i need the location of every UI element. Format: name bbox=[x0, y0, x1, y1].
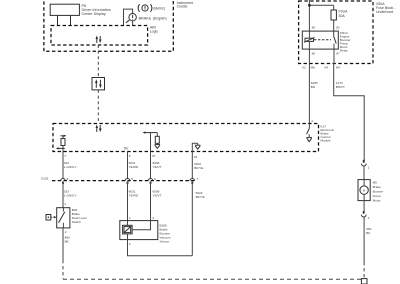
serial data wire (dashed) lower bbox=[97, 90, 99, 124]
svg-text:YE/RD: YE/RD bbox=[129, 165, 139, 169]
battery feed wire bbox=[309, 0, 333, 31]
svg-text:Logic: Logic bbox=[150, 30, 159, 34]
brake warning lamp wire bbox=[124, 9, 133, 25]
svg-text:1: 1 bbox=[129, 216, 131, 220]
display P8 bbox=[50, 4, 111, 25]
ground terminal square bbox=[361, 279, 367, 284]
svg-text:85: 85 bbox=[312, 26, 316, 30]
brake warning lamp (english) bbox=[126, 14, 167, 23]
svg-text:7: 7 bbox=[64, 154, 66, 158]
svg-text:M5: M5 bbox=[373, 181, 378, 185]
float symbol bbox=[46, 215, 57, 221]
ECM pin numbers bbox=[64, 154, 197, 159]
relay contact linkage (dashed) bbox=[314, 39, 331, 41]
wire 6022 BK/YE upper bbox=[192, 152, 203, 179]
ECM internal: pin 2 switch to ground bbox=[306, 119, 313, 142]
brake fluid level switch B20 bbox=[57, 202, 87, 228]
svg-text:8: 8 bbox=[67, 177, 69, 181]
junction dot bbox=[308, 4, 311, 7]
svg-text:L-GN/GY: L-GN/GY bbox=[64, 165, 77, 169]
ECM internal: pin 32 ground bbox=[192, 143, 200, 151]
svg-text:1: 1 bbox=[64, 202, 66, 206]
wire 550 BK bbox=[364, 217, 372, 279]
svg-text:2: 2 bbox=[368, 216, 370, 220]
serial data arrows in A60 bbox=[96, 36, 102, 44]
gateway connector box with arrows bbox=[92, 78, 105, 90]
svg-text:8: 8 bbox=[129, 154, 131, 158]
svg-text:L-GN/GY: L-GN/GY bbox=[64, 193, 77, 197]
brake booster pump motor M5 bbox=[358, 180, 383, 203]
relay KR14 bbox=[302, 26, 350, 56]
svg-text:BK/YE: BK/YE bbox=[196, 195, 205, 199]
svg-text:BN: BN bbox=[311, 85, 315, 89]
svg-text:30: 30 bbox=[336, 26, 340, 30]
svg-text:(English): (English) bbox=[153, 16, 167, 20]
wire 333 L-GN/GY lower bbox=[63, 182, 77, 208]
wire 6031 YE/RD lower bbox=[128, 182, 139, 226]
svg-text:(Metric): (Metric) bbox=[153, 6, 165, 10]
inline connector 2 (motor ground) bbox=[361, 201, 369, 220]
wire 6008 YE/VT upper bbox=[151, 152, 162, 179]
svg-text:Brake: Brake bbox=[373, 185, 381, 189]
svg-text:BRAKE: BRAKE bbox=[139, 17, 152, 21]
svg-text:37: 37 bbox=[152, 154, 156, 158]
fuse F9UA 30A bbox=[331, 5, 348, 31]
relay coil bbox=[304, 31, 315, 49]
svg-text:X4: X4 bbox=[324, 65, 328, 69]
svg-text:Pump: Pump bbox=[373, 194, 381, 198]
svg-text:2: 2 bbox=[65, 230, 67, 234]
wire 6031 YE/RD upper bbox=[128, 152, 139, 179]
ground bus (dashed) bbox=[63, 278, 361, 280]
svg-text:Module: Module bbox=[321, 138, 331, 142]
wire label 1470 BN/VT bbox=[336, 81, 345, 89]
svg-text:Motor: Motor bbox=[373, 199, 381, 203]
svg-text:BN/VT: BN/VT bbox=[336, 85, 345, 89]
ECM internal: pin 37 input with pull-down resistor bbox=[143, 131, 161, 151]
svg-text:32: 32 bbox=[194, 155, 198, 159]
svg-text:2: 2 bbox=[311, 119, 313, 123]
instrument cluster box bbox=[44, 0, 193, 51]
svg-text:BK/YE: BK/YE bbox=[194, 166, 203, 170]
svg-text:5V: 5V bbox=[124, 147, 129, 151]
ECM K17 box bbox=[53, 124, 335, 152]
A60 logic box bbox=[51, 26, 158, 46]
inline connector X102 bbox=[41, 176, 194, 180]
svg-text:6: 6 bbox=[154, 177, 156, 181]
svg-text:X2: X2 bbox=[302, 65, 306, 69]
svg-text:1: 1 bbox=[368, 166, 370, 170]
connector X4 H4 bbox=[324, 65, 340, 69]
svg-text:YE/VT: YE/VT bbox=[153, 165, 162, 169]
wire relay 86 to below bbox=[308, 49, 310, 124]
svg-text:86: 86 bbox=[312, 52, 316, 56]
serial data wire (dashed) upper bbox=[97, 45, 99, 78]
svg-text:2: 2 bbox=[129, 242, 131, 246]
fuse block X50A box bbox=[299, 1, 397, 64]
wire 860 BK bbox=[63, 228, 70, 279]
svg-text:Relay: Relay bbox=[340, 49, 348, 53]
svg-text:Sensor: Sensor bbox=[160, 240, 170, 244]
X102 terminal bumps bbox=[61, 177, 199, 184]
svg-text:Switch: Switch bbox=[72, 220, 81, 224]
serial data arrows at ECM entry bbox=[96, 125, 102, 133]
connector X2 M6 bbox=[302, 65, 315, 69]
wire relay 87 to motor bbox=[334, 49, 365, 162]
brake booster vacuum sensor B185 bbox=[120, 216, 171, 244]
svg-text:Cluster: Cluster bbox=[177, 5, 189, 9]
svg-text:Underhood: Underhood bbox=[376, 10, 393, 14]
brake warning icon (metric) bbox=[138, 4, 165, 12]
svg-text:4: 4 bbox=[152, 216, 154, 220]
svg-text:7: 7 bbox=[196, 177, 198, 181]
ECM internal: pull-up resistor at pin 7 bbox=[56, 135, 66, 152]
svg-text:Booster: Booster bbox=[373, 190, 384, 194]
sensor ground return wire bbox=[128, 234, 193, 256]
wire 6022 BK/YE lower bbox=[192, 182, 204, 256]
svg-text:H4: H4 bbox=[336, 65, 340, 69]
svg-text:YE/RD: YE/RD bbox=[129, 193, 139, 197]
relay switch blade bbox=[334, 31, 337, 49]
wire label 6285 BN bbox=[311, 81, 318, 89]
inline connector 1 (motor feed) bbox=[361, 160, 369, 180]
svg-text:YE/VT: YE/VT bbox=[153, 193, 162, 197]
wire 6008 YE/VT lower bbox=[151, 182, 162, 221]
svg-text:M6: M6 bbox=[311, 65, 316, 69]
svg-text:X102: X102 bbox=[41, 176, 49, 180]
wire 333 L-GN/GY upper bbox=[63, 152, 77, 179]
svg-text:30A: 30A bbox=[339, 14, 346, 18]
svg-text:Center Display: Center Display bbox=[82, 12, 106, 16]
svg-text:5: 5 bbox=[131, 177, 133, 181]
